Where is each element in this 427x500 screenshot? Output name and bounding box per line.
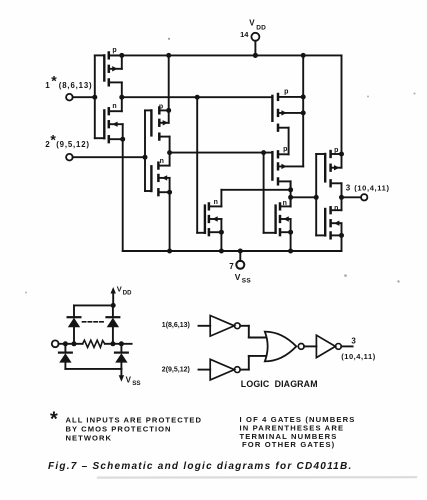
diode D2 (input to VDD, right) <box>107 305 120 343</box>
faint scan streak artifact <box>98 476 416 479</box>
wire VSS rail (bottom supply bus) <box>123 249 342 254</box>
inverter A (input 1 buffer) <box>210 316 240 337</box>
dashed link between D1 and D2 (distributed diode) <box>83 321 105 323</box>
wire VDD feed column to p3 source and bulks <box>301 55 306 166</box>
label logic input 1 (8,6,13) <box>162 322 190 329</box>
svg-text:V: V <box>117 285 122 294</box>
wire VDD feed to p2 source (crosses node A without junction) <box>168 55 170 110</box>
svg-text:Fig.7 – Schematic and logic di: Fig.7 – Schematic and logic diagrams for… <box>48 461 352 472</box>
svg-text:(9,5,12): (9,5,12) <box>56 140 90 149</box>
label VDD pin number 14 <box>240 30 249 39</box>
svg-text:LOGIC DIAGRAM: LOGIC DIAGRAM <box>241 379 318 389</box>
label p of transistor p5 <box>334 147 338 154</box>
svg-text:V: V <box>235 272 241 282</box>
transistor n1 (NMOS, gate=input1, drain=node A, source=VSS) <box>104 97 125 251</box>
terminal output 3 <box>361 194 367 200</box>
transistor p2 (PMOS, gate=input2, source=VDD, drain=node B) <box>151 108 172 156</box>
label p of transistor p3 <box>284 88 288 95</box>
label logic input 2 (9,5,12) <box>162 366 190 373</box>
label n of transistor n2 <box>160 158 164 165</box>
transistor p3 (PMOS, gate=node A, source=VDD, drain=p4 source) <box>272 94 303 154</box>
transistor p1 (PMOS, gate=input1, source=VDD, drain=node A) <box>104 53 124 100</box>
label n of transistor n5 <box>334 205 338 212</box>
label logic output 3 (10,4,11) <box>341 336 376 361</box>
svg-text:p: p <box>112 47 116 54</box>
label n of transistor n1 <box>112 103 116 110</box>
svg-text:ALL INPUTS ARE PROTECTED: ALL INPUTS ARE PROTECTED <box>66 415 203 424</box>
svg-text:n: n <box>160 158 164 165</box>
svg-text:SS: SS <box>132 380 140 387</box>
wire input 2 to gate line <box>73 155 148 160</box>
transistor n5 (NMOS output inverter, drain=output, source=VSS) <box>325 197 344 251</box>
svg-text:*: * <box>50 409 58 431</box>
svg-text:NETWORK: NETWORK <box>66 434 113 443</box>
label p of transistor p2 <box>159 104 163 111</box>
wire output node to terminal 3 <box>342 196 362 198</box>
svg-text:14: 14 <box>240 30 249 39</box>
wire gate line of output inverter <box>316 154 325 235</box>
wire logic output 3 <box>341 345 352 347</box>
label VDD of protection network <box>117 285 132 297</box>
diode D1 (input to VDD, left) <box>68 305 81 343</box>
diode D3 (VSS to input, left) <box>59 344 72 369</box>
label n of transistor n4 <box>283 200 287 207</box>
resistor (series input protection resistor) <box>83 340 105 347</box>
svg-text:3: 3 <box>351 336 356 345</box>
protection network VDD arrow <box>111 287 116 308</box>
svg-text:SS: SS <box>242 278 252 285</box>
wire n3 drain to node C (crosses n4 gate line) <box>221 189 290 191</box>
protection network VSS arrow <box>119 369 124 382</box>
label n of transistor n3 <box>214 199 218 206</box>
svg-text:*: * <box>51 73 57 89</box>
NOR gate U1 <box>265 332 304 362</box>
inverter B (input 2 buffer) <box>210 359 240 380</box>
transistor n2 (NMOS, gate=input2, drain=node B, source=VSS) <box>151 153 172 251</box>
label VSS <box>235 272 252 285</box>
label p of transistor p4 <box>283 146 287 153</box>
node C vertical (second stage output) <box>288 181 293 206</box>
terminal input of protection network <box>52 340 59 347</box>
wire input line of protection network (left of resistor) <box>59 341 83 346</box>
terminal input 1 <box>66 94 73 101</box>
wire inverter A output to NOR top input <box>240 326 266 338</box>
wire NOR output to inverter C <box>304 345 316 347</box>
svg-text:DD: DD <box>123 291 132 297</box>
wire inverter B output to NOR bottom input <box>240 356 266 370</box>
wire VDD rail (top supply bus) <box>109 53 342 58</box>
svg-text:p: p <box>159 104 163 111</box>
terminal VDD pin 14 <box>251 33 259 58</box>
wire gate line of input 2 (vertical with links to p2 and n2 gates) <box>145 110 151 191</box>
svg-text:(10,4,11): (10,4,11) <box>341 352 376 361</box>
svg-text:p: p <box>284 88 288 95</box>
wire gate line of input 1 (vertical with links to p1 and n1 gates) <box>95 55 105 138</box>
wire gate line from node A down to n3 gate <box>197 97 205 233</box>
svg-text:n: n <box>334 205 338 212</box>
svg-text:n: n <box>283 200 287 207</box>
wire node A (output of input-1 inverter) <box>122 95 273 100</box>
svg-text:BY CMOS PROTECTION: BY CMOS PROTECTION <box>66 425 172 434</box>
svg-text:2(9,5,12): 2(9,5,12) <box>162 366 190 373</box>
label VSS pin number 7 <box>229 262 234 271</box>
transistor p4 (PMOS, gate=node B, source=p3 drain, drain=node C) <box>272 151 303 189</box>
wire node B (output of input-2 inverter, crosses T5 gate line) <box>170 150 273 155</box>
caption Fig.7 <box>48 461 352 472</box>
svg-text:7: 7 <box>229 262 234 271</box>
svg-text:p: p <box>283 146 287 153</box>
scan specks <box>25 38 416 294</box>
wire gate line from node B down to n4 gate <box>264 153 276 233</box>
transistor n4 (NMOS, gate=node B, drain=node C, source=VSS) <box>276 197 294 251</box>
label output 3 (10,4,11) <box>346 183 390 192</box>
svg-text:p: p <box>334 147 338 154</box>
svg-text:3: 3 <box>346 183 351 192</box>
transistor n3 (NMOS, gate=node A, drain=node C, source=VSS) <box>205 190 224 251</box>
wire logic input 1 <box>199 325 211 327</box>
svg-text:(10,4,11): (10,4,11) <box>354 184 389 193</box>
svg-text:FOR OTHER GATES): FOR OTHER GATES) <box>242 440 335 449</box>
svg-text:DD: DD <box>256 25 266 32</box>
svg-text:(8,6,13): (8,6,13) <box>59 81 93 90</box>
svg-text:1(8,6,13): 1(8,6,13) <box>162 322 190 329</box>
label p of transistor p1 <box>112 47 116 54</box>
wire VDD rail drop to p5 source <box>339 55 344 156</box>
inverter C (output buffer) <box>316 335 341 357</box>
wire input line of protection network (right of resistor) <box>105 341 132 346</box>
svg-text:n: n <box>112 103 116 110</box>
wire node C to output-stage gate line <box>291 195 319 200</box>
footnote asterisk: all inputs protected <box>50 409 202 443</box>
wire logic input 2 <box>199 369 211 371</box>
wire top rail of protection network <box>74 304 113 306</box>
label VDD <box>249 19 266 32</box>
wire bottom rail of protection network <box>65 368 121 370</box>
transistor p5 (PMOS output inverter, source=VDD, drain=output) <box>325 151 344 200</box>
terminal VSS pin 7 <box>236 251 244 269</box>
label input 2 (9,5,12) <box>45 132 90 150</box>
label VSS of protection network <box>126 376 141 387</box>
label input 1 (8,6,13) <box>45 73 92 91</box>
svg-text:V: V <box>249 19 255 28</box>
wire input 1 to gate line <box>73 95 98 100</box>
diode D4 (VSS to input, right) <box>115 344 128 369</box>
svg-text:1: 1 <box>45 81 50 90</box>
svg-text:n: n <box>214 199 218 206</box>
svg-text:V: V <box>126 376 132 385</box>
footnote: 1 of 4 gates <box>240 415 356 449</box>
terminal input 2 <box>66 154 73 161</box>
label LOGIC DIAGRAM <box>241 379 318 389</box>
